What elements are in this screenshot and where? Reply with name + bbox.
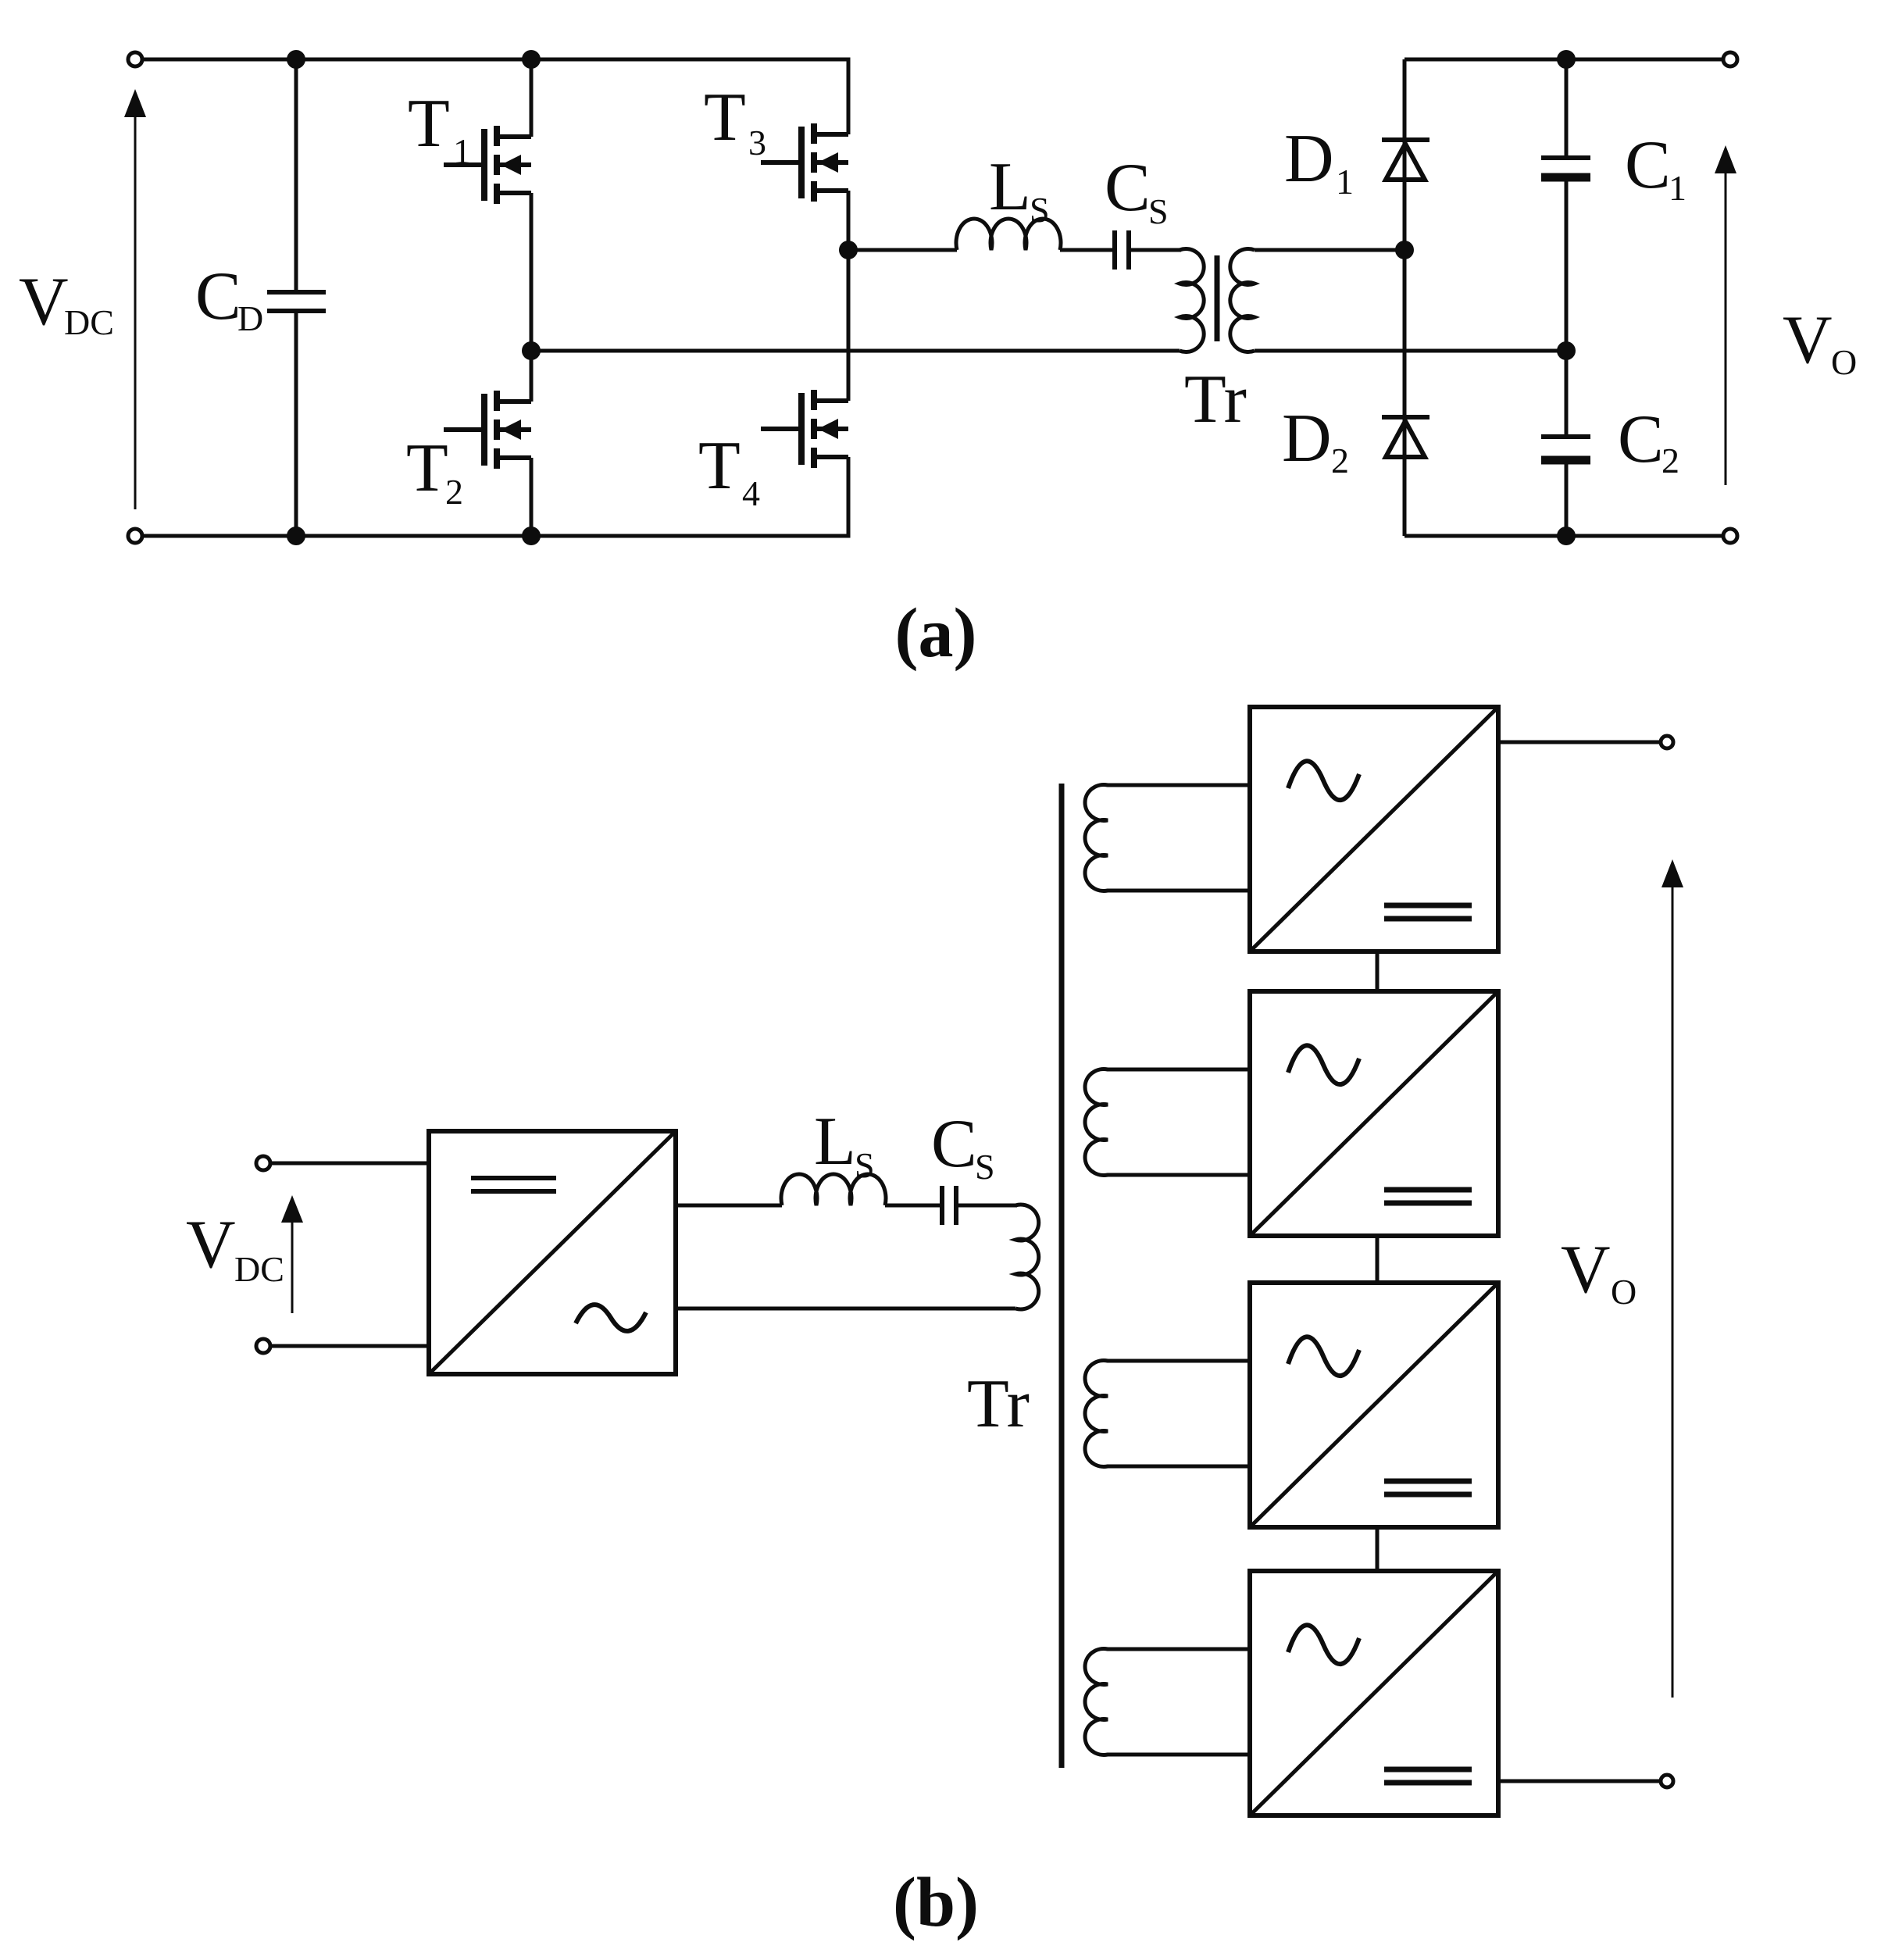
svg-text:2: 2: [1331, 441, 1349, 480]
transistor T3 (MOSFET): [761, 123, 848, 250]
wire Ls to Cs: [1060, 248, 1115, 252]
label CD: [195, 259, 263, 338]
label T2: [406, 430, 463, 512]
svg-text:1: 1: [1669, 168, 1686, 208]
svg-text:S: S: [1148, 191, 1169, 231]
label CS: [1105, 150, 1169, 231]
label Tr: [1184, 362, 1247, 437]
svg-text:3: 3: [748, 123, 766, 162]
svg-text:D: D: [237, 298, 263, 338]
label LS: [989, 149, 1050, 230]
svg-text:O: O: [1611, 1272, 1637, 1312]
secondary winding 4 (b): [1085, 1649, 1250, 1755]
node dot bottom rail / CD: [287, 527, 305, 545]
svg-text:DC: DC: [234, 1249, 284, 1289]
label Tr (b): [967, 1366, 1030, 1442]
svg-text:DC: DC: [64, 302, 114, 342]
svg-text:S: S: [1030, 190, 1050, 230]
node top rail / C branch: [1557, 50, 1576, 69]
terminal output - (b): [1661, 1775, 1673, 1787]
label VDC (a): [19, 264, 114, 342]
wire primary return to converter (b): [676, 1307, 1015, 1311]
label T4: [698, 428, 760, 513]
caption (a): [895, 594, 977, 672]
wire diode branch vertical: [1403, 59, 1407, 536]
svg-text:L: L: [989, 149, 1031, 225]
svg-text:T: T: [406, 430, 448, 506]
svg-text:O: O: [1831, 342, 1857, 382]
transformer core (b): [1059, 784, 1065, 1768]
label LS (b): [814, 1104, 875, 1185]
wire series link 3-4: [1376, 1527, 1380, 1571]
wire Cs to transformer: [1129, 248, 1181, 252]
secondary winding 1 (b): [1085, 785, 1250, 891]
diode D2: [1382, 417, 1429, 457]
svg-text:C: C: [1625, 127, 1671, 203]
terminal output - (a): [1723, 529, 1737, 543]
svg-text:T: T: [704, 80, 746, 155]
label C1: [1625, 127, 1686, 208]
svg-text:D: D: [1282, 401, 1332, 477]
svg-text:V: V: [19, 264, 69, 340]
label T3: [704, 80, 766, 162]
transformer Tr primary winding: [1180, 249, 1204, 352]
terminal input - (b): [256, 1339, 270, 1353]
svg-text:2: 2: [1661, 441, 1679, 480]
label D2: [1282, 401, 1349, 480]
terminal output + (b): [1661, 736, 1673, 748]
svg-text:V: V: [1783, 302, 1833, 378]
capacitor C1: [1541, 59, 1590, 351]
label T1: [408, 86, 471, 171]
node A (T1/T2 midpoint): [522, 341, 541, 360]
wire bottom rail right: [1405, 534, 1723, 538]
wire converter to Ls (b): [676, 1204, 782, 1208]
label D1: [1284, 121, 1354, 202]
converter block 2 (AC/DC): [1250, 991, 1498, 1236]
wire top rail left: [142, 59, 848, 134]
inductor LS: [956, 219, 1061, 250]
inductor LS (b): [781, 1174, 886, 1205]
wire Ls to Cs (b): [885, 1204, 942, 1208]
label CS (b): [931, 1106, 995, 1187]
wire series link 1-2: [1376, 951, 1380, 991]
transistor T2 (MOSFET): [444, 351, 531, 536]
secondary winding 2 (b): [1085, 1069, 1250, 1176]
transformer primary winding (b): [1015, 1205, 1039, 1309]
svg-text:T: T: [698, 428, 741, 504]
svg-text:S: S: [975, 1147, 995, 1187]
wire input + to converter: [270, 1162, 429, 1166]
svg-text:C: C: [1618, 402, 1664, 477]
converter block 4 (AC/DC): [1250, 1571, 1498, 1815]
svg-text:2: 2: [445, 472, 463, 512]
label VO (b): [1561, 1232, 1637, 1312]
wire Cs to primary winding (b): [956, 1204, 1017, 1208]
wire node B to Ls: [848, 248, 957, 252]
svg-text:Tr: Tr: [1184, 362, 1247, 437]
svg-text:V: V: [186, 1207, 236, 1283]
VDC arrow: [124, 89, 146, 509]
VO arrow (b): [1661, 859, 1683, 1698]
svg-text:1: 1: [1336, 162, 1354, 202]
wire primary return (node A to winding): [531, 349, 1180, 353]
node dot bottom rail / T2 leg: [522, 527, 541, 545]
svg-text:T: T: [408, 86, 450, 162]
VDC arrow (b): [281, 1195, 303, 1313]
label VDC (b): [186, 1207, 284, 1289]
terminal input + (a): [128, 52, 142, 66]
node secondary top / diode branch: [1395, 241, 1414, 259]
node B (T3/T4 midpoint, bridge output): [839, 241, 858, 259]
capacitor C2: [1541, 351, 1590, 536]
wire block4 output: [1498, 1780, 1661, 1783]
wire T3/T4 leg crossing mid wire: [847, 250, 851, 401]
wire bottom rail left: [142, 457, 848, 536]
capacitor CD: [267, 59, 326, 536]
svg-text:(b): (b): [893, 1864, 979, 1941]
transistor T1 (MOSFET): [444, 59, 531, 351]
label VO (a): [1783, 302, 1857, 382]
wire series link 2-3: [1376, 1236, 1380, 1283]
wire top rail right: [1405, 58, 1723, 62]
transistor T4 (MOSFET): [761, 390, 848, 536]
capacitor CS (b): [942, 1186, 956, 1225]
VO arrow (a): [1715, 145, 1736, 485]
node dot top rail / CD: [287, 50, 305, 69]
svg-text:S: S: [855, 1145, 875, 1185]
svg-text:4: 4: [742, 473, 760, 513]
svg-text:D: D: [1284, 121, 1334, 197]
terminal output + (a): [1723, 52, 1737, 66]
svg-text:Tr: Tr: [967, 1366, 1030, 1442]
svg-text:C: C: [931, 1106, 977, 1182]
wire secondary bottom to capacitor branch: [1255, 349, 1566, 353]
wire secondary top to diode branch: [1255, 248, 1405, 252]
svg-text:C: C: [1105, 150, 1151, 226]
svg-text:1: 1: [453, 131, 471, 171]
wire block1 output: [1498, 741, 1661, 744]
terminal input - (a): [128, 529, 142, 543]
capacitor CS: [1115, 230, 1129, 270]
transformer Tr secondary winding: [1230, 249, 1255, 352]
caption (b): [893, 1864, 979, 1941]
svg-text:(a): (a): [895, 594, 977, 672]
svg-text:C: C: [195, 259, 241, 334]
node bottom rail / C branch: [1557, 527, 1576, 545]
converter block 3 (AC/DC): [1250, 1283, 1498, 1527]
node dot top rail / T1 leg: [522, 50, 541, 69]
secondary winding 3 (b): [1085, 1361, 1250, 1467]
wire input - to converter: [270, 1344, 429, 1348]
transformer core: [1215, 255, 1220, 341]
node secondary bottom / C1-C2 midpoint: [1557, 341, 1576, 360]
converter block U1 (DC/AC): [429, 1131, 676, 1374]
label C2: [1618, 402, 1679, 480]
svg-text:L: L: [814, 1104, 856, 1180]
converter block 1 (AC/DC): [1250, 707, 1498, 951]
diode D1: [1382, 140, 1429, 180]
terminal input + (b): [256, 1156, 270, 1170]
svg-text:V: V: [1561, 1232, 1611, 1308]
